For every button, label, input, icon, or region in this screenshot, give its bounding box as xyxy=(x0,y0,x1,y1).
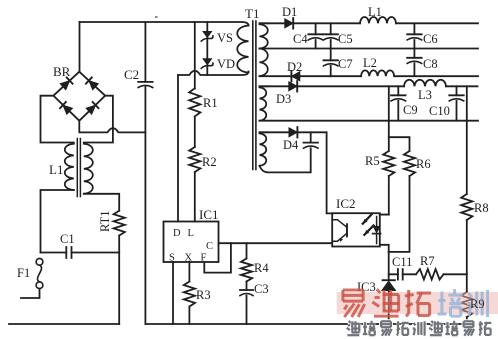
svg-text:C1: C1 xyxy=(60,232,75,246)
bridge diode top-left xyxy=(60,81,70,90)
wire: output rail 5 (0V return of D3 section) xyxy=(260,120,479,122)
svg-text:S: S xyxy=(169,253,175,264)
wire: left drop from DC+ rail to bridge top xyxy=(79,22,81,72)
watermark text yi di tuo (red) xyxy=(343,289,363,292)
svg-text:C11: C11 xyxy=(392,255,412,269)
svg-text:C: C xyxy=(206,241,213,252)
wire: IC1 X pin to R3 xyxy=(188,262,190,324)
wire: R1/R2 column from DC+ rail to IC1 L pin xyxy=(194,22,196,222)
diode D3 xyxy=(289,82,298,91)
wire: RT1 bottom to left AC rail xyxy=(118,236,120,325)
svg-text:F1: F1 xyxy=(17,266,30,280)
transformer secondary winding B xyxy=(260,49,268,77)
svg-text:BR: BR xyxy=(53,64,71,79)
svg-text:C4: C4 xyxy=(293,32,308,46)
capacitor C1 xyxy=(65,247,67,258)
thermistor RT1 xyxy=(114,211,125,236)
svg-text:R2: R2 xyxy=(202,155,217,169)
transformer secondary winding A (top) xyxy=(260,22,269,24)
svg-text:D3: D3 xyxy=(276,92,291,106)
svg-text:L1: L1 xyxy=(49,162,63,177)
svg-text:R4: R4 xyxy=(254,261,269,275)
inductor L1 (output filter) xyxy=(360,17,396,23)
svg-text:R8: R8 xyxy=(474,201,489,215)
wire: C11/R7 compensation xyxy=(389,273,467,275)
resistor R8 xyxy=(461,194,472,220)
watermark pink band xyxy=(337,292,498,314)
svg-text:IC3: IC3 xyxy=(357,280,376,294)
wire: F1 bottom to AC terminal stub xyxy=(21,289,40,298)
diode D1 xyxy=(285,19,294,28)
capacitor C3 xyxy=(240,289,253,291)
IC2 LED xyxy=(376,217,378,244)
wire: aux winding D output xyxy=(260,132,333,213)
IC2 phototransistor xyxy=(332,220,347,242)
svg-text:L: L xyxy=(188,228,194,239)
inductor L3 xyxy=(404,80,446,87)
resistor R5 xyxy=(383,151,394,176)
svg-text:RT1: RT1 xyxy=(98,211,112,232)
svg-text:IC1: IC1 xyxy=(199,207,219,222)
aux capacitor after D4 xyxy=(310,132,312,142)
fuse F1 xyxy=(36,258,43,265)
capacitor C2 with its vertical line xyxy=(144,22,146,324)
wire: IC1 S pin to ground rail xyxy=(172,262,174,324)
wire: output rail 1 (D1/L1) xyxy=(260,22,479,24)
bridge diode bottom-right xyxy=(86,105,96,114)
IC1 box xyxy=(164,222,219,263)
wire: R6 branch elbow xyxy=(389,137,410,252)
wire: output rail 4 (D3/L3 +12V) xyxy=(260,85,478,87)
svg-text:C10: C10 xyxy=(429,104,450,118)
watermark text pei xun (blue) xyxy=(440,292,443,313)
svg-text:D2: D2 xyxy=(287,60,302,74)
svg-text:D: D xyxy=(173,228,181,239)
resistor R7 xyxy=(416,269,444,279)
capacitor C10 with leads xyxy=(456,86,458,120)
wire: R8/R9 column xyxy=(466,86,468,324)
wire: bridge right corner down to L1 choke top-right xyxy=(84,96,113,143)
svg-text:R1: R1 xyxy=(203,96,218,110)
svg-text:R5: R5 xyxy=(365,154,380,168)
shunt regulator IC3 xyxy=(383,279,395,281)
svg-text:D4: D4 xyxy=(283,138,299,152)
svg-text:R9: R9 xyxy=(470,297,485,311)
svg-text:C9: C9 xyxy=(403,103,418,117)
wire: R4/C3 branch xyxy=(246,243,248,324)
resistor R3 xyxy=(184,282,195,307)
svg-text:T1: T1 xyxy=(245,6,259,21)
transformer T1 core lines xyxy=(252,21,254,170)
transformer secondary winding D (aux) xyxy=(260,131,269,133)
wire: IC2 right pins xyxy=(380,215,389,252)
svg-text:C3: C3 xyxy=(254,282,269,296)
bridge diode top-right xyxy=(89,81,99,90)
wire: y75 aux line from IC1 D-pin column to primary bottom, hop over R1 column xyxy=(178,71,249,75)
wire: secondary ground bottom rail xyxy=(145,323,466,325)
wire: output rail 3 (D2/L2 negative) xyxy=(260,75,479,77)
svg-text:C6: C6 xyxy=(423,32,438,46)
svg-text:L3: L3 xyxy=(418,88,432,102)
capacitor C8 with leads xyxy=(413,49,415,77)
optocoupler IC2 box xyxy=(332,213,380,246)
wire: C1 line from F1 junction to RT1 line xyxy=(41,252,120,254)
diode D2 (pointing left) xyxy=(291,72,300,81)
svg-text:R6: R6 xyxy=(416,157,431,171)
resistor R4 xyxy=(241,259,252,282)
svg-text:IC2: IC2 xyxy=(336,196,356,211)
IC2 light arrows xyxy=(363,215,372,224)
wire: IC1 F pin hook xyxy=(204,243,231,272)
capacitor C4 with leads xyxy=(315,23,317,48)
svg-text:C5: C5 xyxy=(338,32,353,46)
zener VS xyxy=(203,31,212,37)
inductor L2 xyxy=(361,70,394,76)
transformer secondary winding C xyxy=(260,85,269,87)
wire: top DC+ rail from bridge to transformer primary xyxy=(80,22,249,26)
svg-text:R3: R3 xyxy=(196,288,211,302)
bridge rectifier BR diamond xyxy=(53,72,105,121)
svg-text:L1: L1 xyxy=(368,5,382,19)
svg-text:VD: VD xyxy=(217,57,235,71)
transformer T1 primary winding xyxy=(237,26,248,73)
svg-text:VS: VS xyxy=(217,31,233,45)
watermark slogan gray text xyxy=(349,321,351,323)
diode D4 xyxy=(289,128,298,137)
capacitor C6 with leads xyxy=(413,23,415,48)
wire: left AC bottom rail xyxy=(9,323,119,325)
wire: secondary D bottom loop to aux cap bottom xyxy=(260,148,311,172)
wire: VS/VD snubber column xyxy=(206,22,208,75)
wire: IC1 D pin column xyxy=(177,75,179,222)
wire: opto cathode / IC3 column xyxy=(388,252,390,324)
capacitor C9 with leads xyxy=(397,86,399,120)
resistor R2 xyxy=(189,147,200,172)
wire: bridge bottom to C2 line with hop over L1 right lead xyxy=(79,121,145,133)
resistor R1 xyxy=(189,88,200,116)
svg-text:C2: C2 xyxy=(124,67,139,82)
wire: bridge left corner to L1 choke top-left xyxy=(41,96,74,143)
choke L1 core lines xyxy=(76,139,78,197)
svg-text:R7: R7 xyxy=(420,254,435,268)
stray mark xyxy=(155,16,158,18)
common-mode choke L1 right winding xyxy=(84,144,93,194)
capacitor C5 with leads xyxy=(330,23,332,48)
wire: choke left-bottom down to C1/F1 junction xyxy=(41,190,74,253)
common-mode choke L1 left winding xyxy=(65,144,74,190)
svg-text:D1: D1 xyxy=(282,5,297,19)
svg-text:C8: C8 xyxy=(423,57,438,71)
bridge diode bottom-left xyxy=(63,105,73,114)
wire: R5 column from +12V rail down to IC2 xyxy=(380,86,389,214)
capacitor C7 with leads xyxy=(330,49,332,77)
resistor R6 xyxy=(404,151,415,176)
wire: IC1 C pin to IC2 xyxy=(219,242,333,244)
resistor R9 xyxy=(461,292,472,317)
zener VD xyxy=(203,59,212,65)
svg-text:L2: L2 xyxy=(363,56,377,70)
svg-text:C7: C7 xyxy=(338,57,353,71)
capacitor C11 xyxy=(397,269,399,280)
wire: output rail 2 (return) xyxy=(260,48,479,50)
wire: choke right-bottom to RT1 xyxy=(84,194,119,211)
